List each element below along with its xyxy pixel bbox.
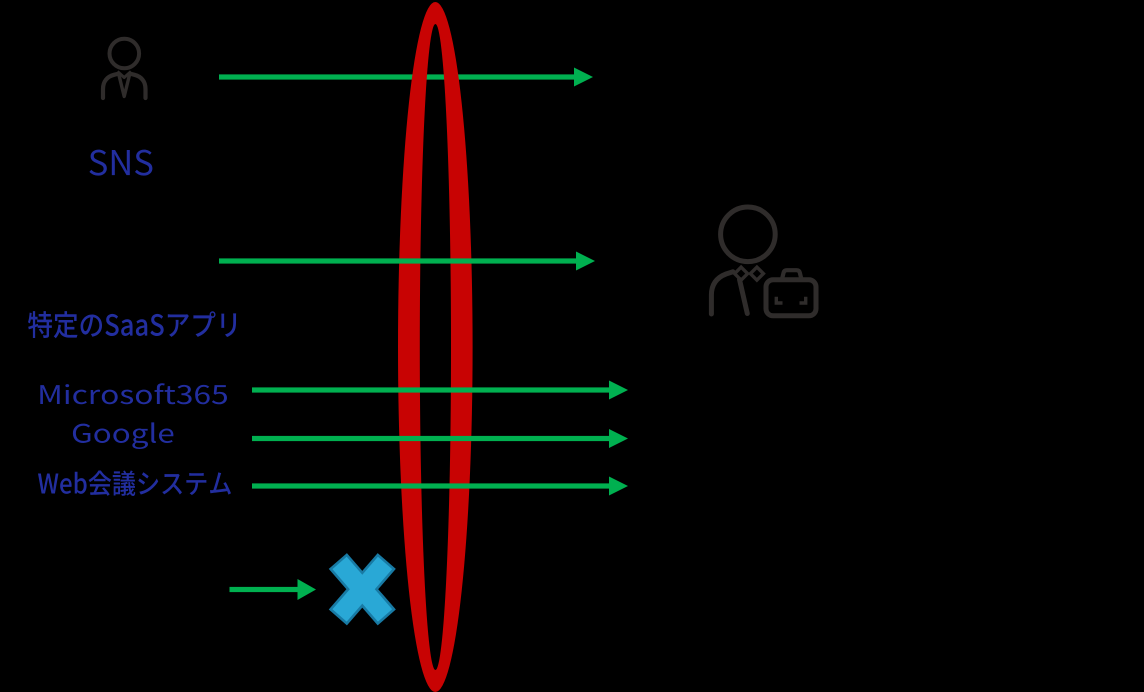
label Microsoft365 [40,383,227,404]
arrow 5: Web meeting to right [252,477,628,496]
arrow 1: SNS to right (under ellipse) [219,68,593,87]
person icon (left, SNS user) [103,39,146,98]
arrow 6: blocked flow [230,579,317,600]
business person icon with briefcase (right) [711,207,816,316]
label Google [73,422,174,449]
label Web kaigi system [38,471,231,496]
label SNS [89,150,152,176]
label tokutei no SaaS apuri [28,311,236,338]
red ellipse (blocking ring) [398,2,473,692]
blue X (blocked mark) [331,555,394,624]
arrow 2: SaaS app to right [219,252,595,271]
arrow 4: Google to right [252,429,628,448]
arrow 3: Microsoft365 to right [252,381,628,400]
